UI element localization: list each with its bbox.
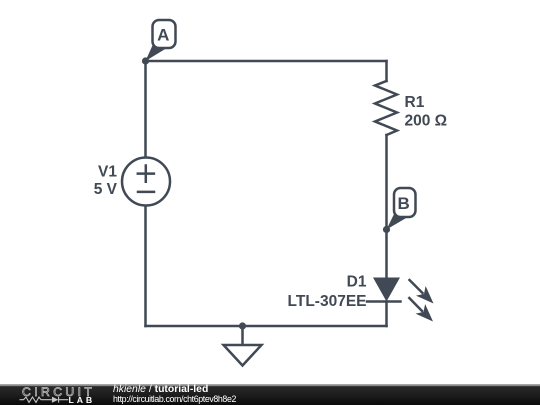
svg-text:200 Ω: 200 Ω: [405, 112, 448, 129]
svg-text:B: B: [397, 194, 409, 213]
svg-text:V1: V1: [98, 164, 117, 181]
svg-text:5 V: 5 V: [94, 181, 118, 198]
svg-text:A: A: [157, 26, 169, 45]
svg-text:D1: D1: [347, 274, 367, 291]
svg-text:R1: R1: [405, 94, 425, 111]
svg-text:LTL-307EE: LTL-307EE: [288, 293, 367, 310]
